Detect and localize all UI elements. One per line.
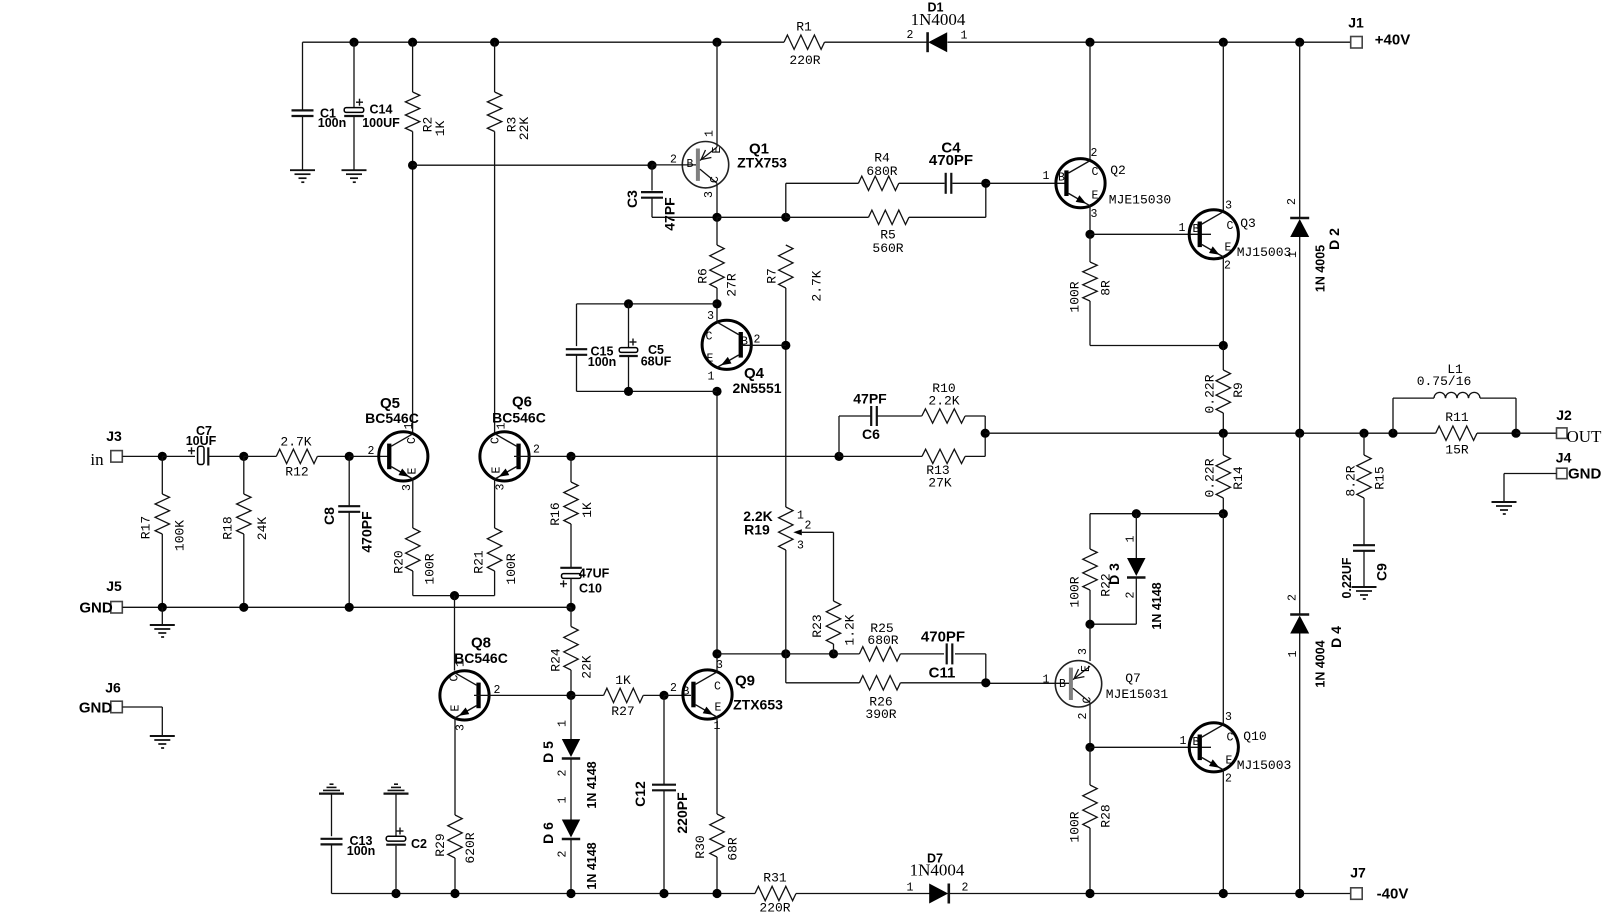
svg-text:47PF: 47PF xyxy=(662,197,678,231)
svg-text:R1: R1 xyxy=(796,20,812,35)
svg-text:J5: J5 xyxy=(106,578,122,594)
capacitor C5 68UF xyxy=(624,299,633,308)
svg-text:1: 1 xyxy=(961,30,968,43)
svg-text:27K: 27K xyxy=(928,476,952,491)
svg-text:J1: J1 xyxy=(1348,15,1364,31)
svg-text:680R: 680R xyxy=(866,164,897,179)
svg-text:R9: R9 xyxy=(1231,382,1246,398)
svg-text:560R: 560R xyxy=(872,241,903,256)
svg-text:Q9: Q9 xyxy=(735,673,755,690)
svg-text:1: 1 xyxy=(1043,674,1050,687)
node Q4 collector / C15 box xyxy=(712,299,721,308)
node L1/R11 right xyxy=(1511,429,1520,438)
connector J2 OUT xyxy=(1557,428,1568,439)
svg-text:Q6: Q6 xyxy=(512,394,532,411)
svg-text:ZTX653: ZTX653 xyxy=(733,697,783,713)
svg-text:R23: R23 xyxy=(810,614,825,637)
svg-text:B: B xyxy=(687,158,694,171)
svg-text:D 4: D 4 xyxy=(1328,626,1344,648)
svg-text:C10: C10 xyxy=(579,582,602,596)
svg-text:1N 4148: 1N 4148 xyxy=(585,761,599,808)
svg-text:E: E xyxy=(450,704,463,711)
svg-text:3: 3 xyxy=(401,484,414,491)
node C10 / gnd rail / R24 xyxy=(566,603,575,612)
wire R7 to R19 xyxy=(785,345,787,507)
svg-text:R11: R11 xyxy=(1445,410,1469,425)
svg-text:R20: R20 xyxy=(392,550,407,573)
svg-text:C: C xyxy=(1227,220,1234,233)
svg-text:C: C xyxy=(709,176,722,183)
svg-text:Q8: Q8 xyxy=(471,635,491,652)
svg-text:2: 2 xyxy=(1224,260,1231,273)
diode D3 1N4148 xyxy=(1135,514,1137,558)
node output line start xyxy=(981,429,990,438)
svg-text:0.22UF: 0.22UF xyxy=(1340,557,1354,598)
resistor R11 15R xyxy=(1436,426,1477,440)
svg-text:1.2K: 1.2K xyxy=(843,614,858,645)
svg-text:3: 3 xyxy=(703,191,716,198)
wire Q8 base xyxy=(474,694,571,696)
svg-text:BC546C: BC546C xyxy=(454,650,508,666)
svg-text:MJE15031: MJE15031 xyxy=(1106,687,1169,702)
svg-text:100K: 100K xyxy=(173,520,188,551)
resistor R1 220R xyxy=(784,35,825,49)
svg-text:C: C xyxy=(1082,696,1095,703)
svg-text:47PF: 47PF xyxy=(853,391,887,407)
wire +40V rail xyxy=(303,41,785,43)
connector J3 in xyxy=(111,451,123,463)
node J3 / R17 xyxy=(158,452,167,461)
wire Q9 emitter / R30 xyxy=(716,717,718,814)
svg-text:22K: 22K xyxy=(580,655,595,679)
resistor R29 620R xyxy=(454,718,456,815)
svg-text:1N4004: 1N4004 xyxy=(910,861,965,880)
node Q9 collector row xyxy=(712,649,721,658)
wire -40V rail xyxy=(332,893,756,895)
node Q1 collector xyxy=(712,213,721,222)
connector J6 GND xyxy=(111,701,123,713)
wire Q10 collector xyxy=(1222,514,1224,725)
resistor R4 680R xyxy=(858,176,898,190)
svg-text:390R: 390R xyxy=(865,707,896,722)
svg-text:470PF: 470PF xyxy=(921,629,965,646)
svg-text:220R: 220R xyxy=(789,53,820,68)
resistor R24 22K xyxy=(570,607,572,626)
svg-text:1: 1 xyxy=(1125,535,1138,542)
svg-text:1N 4148: 1N 4148 xyxy=(585,842,599,889)
svg-text:27R: 27R xyxy=(725,273,740,297)
svg-text:C3: C3 xyxy=(624,190,640,208)
svg-text:C: C xyxy=(490,437,503,444)
resistor R17 100K xyxy=(161,456,163,494)
svg-text:1: 1 xyxy=(907,882,914,895)
svg-text:0.22R: 0.22R xyxy=(1203,458,1218,497)
ground C13 (inverted) xyxy=(319,792,344,794)
resistor R2 1K xyxy=(412,42,414,92)
wire R8 to Q3 emitter xyxy=(1090,345,1223,347)
svg-text:2: 2 xyxy=(368,445,375,458)
svg-text:Q7: Q7 xyxy=(1125,671,1141,686)
svg-text:R16: R16 xyxy=(548,502,563,525)
svg-text:24K: 24K xyxy=(255,517,270,541)
ground J5 xyxy=(161,607,163,625)
svg-text:J7: J7 xyxy=(1350,865,1366,881)
svg-text:3: 3 xyxy=(1225,200,1232,213)
svg-text:MJ15003: MJ15003 xyxy=(1237,758,1292,773)
svg-text:100n: 100n xyxy=(318,116,347,130)
wire tail node xyxy=(413,595,495,597)
svg-text:C6: C6 xyxy=(862,426,880,442)
node feedback tap xyxy=(834,452,843,461)
svg-text:Q2: Q2 xyxy=(1110,163,1126,178)
svg-text:3: 3 xyxy=(495,483,508,490)
svg-text:1N4004: 1N4004 xyxy=(911,10,966,29)
svg-text:R17: R17 xyxy=(139,516,154,539)
capacitor C13 100n xyxy=(331,794,333,837)
wire gnd rail xyxy=(122,606,571,608)
svg-text:2: 2 xyxy=(754,334,761,347)
svg-text:68UF: 68UF xyxy=(641,355,672,369)
svg-text:22K: 22K xyxy=(517,117,532,141)
svg-text:E: E xyxy=(1226,755,1233,768)
svg-text:470PF: 470PF xyxy=(929,152,973,169)
svg-text:620R: 620R xyxy=(463,832,478,863)
ground J6 xyxy=(150,735,175,737)
ground C9 xyxy=(1352,586,1377,588)
wire mid to feedback node xyxy=(571,455,839,457)
resistor R15 8.2R xyxy=(1363,433,1365,455)
svg-text:E: E xyxy=(715,702,722,715)
wire R3 to Q6 collector xyxy=(494,132,496,434)
svg-text:R29: R29 xyxy=(433,833,448,856)
svg-text:1K: 1K xyxy=(580,502,595,518)
svg-text:1N 4005: 1N 4005 xyxy=(1314,245,1328,292)
svg-text:R14: R14 xyxy=(1231,466,1246,490)
wire Q6 base to R16 xyxy=(514,455,571,457)
svg-text:1: 1 xyxy=(708,371,715,384)
svg-text:2: 2 xyxy=(1286,198,1299,205)
resistor R10 2.2K xyxy=(922,409,965,423)
svg-text:BC546C: BC546C xyxy=(365,410,419,426)
diode D6 1N4148 xyxy=(570,759,572,820)
resistor R14 0.22R xyxy=(1222,433,1224,455)
ground C2 (inverted) xyxy=(384,792,409,794)
svg-text:8R: 8R xyxy=(1099,280,1114,296)
ground J4 xyxy=(1492,501,1517,503)
resistor R28 100R xyxy=(1089,747,1091,785)
resistor R27 1K xyxy=(571,694,604,696)
capacitor C9 0.22UF xyxy=(1353,544,1375,546)
svg-text:100R: 100R xyxy=(423,553,438,584)
svg-text:R28: R28 xyxy=(1099,804,1114,827)
svg-text:R31: R31 xyxy=(763,871,787,886)
svg-text:10UF: 10UF xyxy=(186,434,217,448)
transistor Q7 MJE15031 (PNP) xyxy=(1089,624,1091,661)
svg-text:100UF: 100UF xyxy=(362,116,400,130)
node Q8 base / R27 / D5 xyxy=(566,691,575,700)
node Q1 base / R2 xyxy=(408,161,417,170)
svg-text:D 2: D 2 xyxy=(1326,228,1342,250)
svg-text:GND: GND xyxy=(79,700,113,717)
svg-text:C: C xyxy=(406,437,419,444)
svg-text:1: 1 xyxy=(1287,650,1300,657)
resistor R23 1.2K xyxy=(826,601,840,644)
node R12 / C8 / Q5 base xyxy=(345,452,354,461)
svg-text:2.7K: 2.7K xyxy=(280,435,311,450)
svg-text:3: 3 xyxy=(1077,648,1090,655)
svg-text:1K: 1K xyxy=(433,121,448,137)
svg-text:3: 3 xyxy=(1225,711,1232,724)
diode D7 1N4004 xyxy=(929,884,948,904)
resistor R18 24K xyxy=(243,456,245,494)
connector J1 +40V xyxy=(1351,37,1363,49)
capacitor C15 100n xyxy=(576,304,578,346)
transistor Q5 BC546C (NPN) xyxy=(379,432,428,481)
connector J4 GND xyxy=(1557,468,1568,479)
svg-text:100R: 100R xyxy=(504,553,519,584)
svg-text:47UF: 47UF xyxy=(579,567,610,581)
svg-text:2.7K: 2.7K xyxy=(810,270,825,301)
resistor R5 560R xyxy=(786,216,869,218)
wire Q4 collector xyxy=(716,304,718,323)
svg-text:15R: 15R xyxy=(1445,443,1469,458)
node tail xyxy=(450,591,459,600)
svg-text:C: C xyxy=(449,674,462,681)
capacitor C2 xyxy=(395,794,397,837)
svg-text:R15: R15 xyxy=(1373,466,1388,489)
svg-text:0.75/16: 0.75/16 xyxy=(1417,374,1472,389)
wire Q5 collector column xyxy=(412,165,414,434)
svg-text:1: 1 xyxy=(1287,251,1300,258)
svg-text:2: 2 xyxy=(670,154,677,167)
svg-text:C11: C11 xyxy=(929,665,956,682)
resistor R31 220R xyxy=(755,886,796,900)
capacitor C10 47UF xyxy=(560,567,582,569)
svg-text:1: 1 xyxy=(557,720,570,727)
svg-text:C: C xyxy=(1092,166,1099,179)
capacitor C11 470PF xyxy=(946,643,948,664)
svg-text:D 3: D 3 xyxy=(1106,563,1122,585)
svg-text:2: 2 xyxy=(1225,773,1232,786)
svg-text:B: B xyxy=(741,336,748,349)
svg-text:E: E xyxy=(1080,665,1093,672)
svg-text:C14: C14 xyxy=(370,103,393,117)
transistor Q3 MJ15003 (NPN) xyxy=(1222,42,1224,212)
resistor R20 100R xyxy=(412,479,414,528)
svg-text:2: 2 xyxy=(907,29,914,42)
wire R14 row xyxy=(1090,513,1223,515)
svg-text:J3: J3 xyxy=(106,428,122,444)
node R27 / C12 / Q9 base xyxy=(659,691,668,700)
wire Q10 emitter xyxy=(1222,770,1224,894)
diode D4 1N4004 xyxy=(1299,433,1301,614)
resistor R7 2.7K xyxy=(779,245,793,288)
node R14 bottom xyxy=(1219,509,1228,518)
svg-text:680R: 680R xyxy=(867,633,898,648)
svg-text:1N 4148: 1N 4148 xyxy=(1150,582,1164,629)
node Q3 emitter / R9 xyxy=(1219,341,1228,350)
svg-text:R27: R27 xyxy=(611,704,634,719)
svg-text:J6: J6 xyxy=(105,680,121,696)
transistor Q10 MJ15003 (NPN) xyxy=(1189,723,1238,772)
svg-text:C2: C2 xyxy=(411,837,427,851)
svg-text:2N5551: 2N5551 xyxy=(732,380,781,396)
svg-text:1: 1 xyxy=(797,510,804,523)
capacitor C7 10UF xyxy=(162,455,195,457)
svg-text:R24: R24 xyxy=(549,648,564,672)
svg-text:2: 2 xyxy=(557,769,570,776)
svg-text:2.2K: 2.2K xyxy=(928,394,959,409)
diode D2 1N4005 xyxy=(1299,42,1301,218)
svg-text:0.22R: 0.22R xyxy=(1203,374,1218,413)
svg-text:100R: 100R xyxy=(1068,576,1083,607)
capacitor C12 220PF xyxy=(663,695,665,784)
resistor R25 680R xyxy=(859,647,900,661)
svg-text:R30: R30 xyxy=(693,835,708,858)
svg-text:C9: C9 xyxy=(1374,563,1390,581)
capacitor C8 470PF xyxy=(348,456,350,505)
svg-text:+40V: +40V xyxy=(1375,32,1410,49)
svg-text:2: 2 xyxy=(557,850,570,857)
svg-text:Q3: Q3 xyxy=(1240,216,1256,231)
svg-text:1: 1 xyxy=(1180,735,1187,748)
svg-text:R7: R7 xyxy=(765,268,780,284)
wire Q7 collector xyxy=(1089,702,1091,747)
svg-text:OUT: OUT xyxy=(1567,427,1603,446)
svg-text:1: 1 xyxy=(557,796,570,803)
svg-text:E: E xyxy=(1092,190,1099,203)
node Q7 emitter xyxy=(1085,620,1094,629)
svg-text:100n: 100n xyxy=(588,355,617,369)
svg-text:-40V: -40V xyxy=(1377,886,1409,903)
svg-text:J4: J4 xyxy=(1556,449,1572,465)
node Q4 emitter / C15 box bottom xyxy=(712,387,721,396)
svg-text:R6: R6 xyxy=(696,268,711,284)
svg-text:2: 2 xyxy=(1287,594,1300,601)
diode D5 1N4148 xyxy=(570,695,572,739)
svg-text:100n: 100n xyxy=(347,844,376,858)
svg-text:MJ15003: MJ15003 xyxy=(1237,245,1292,260)
svg-text:2: 2 xyxy=(1091,147,1098,160)
svg-text:3: 3 xyxy=(1091,208,1098,221)
capacitor C14 100UF xyxy=(353,42,355,107)
node R4/R5 to Q2 base xyxy=(981,179,990,188)
connector J5 GND xyxy=(111,602,123,614)
potentiometer R19 2.2K xyxy=(779,507,793,550)
svg-text:ZTX753: ZTX753 xyxy=(737,155,787,171)
svg-text:B: B xyxy=(1059,678,1066,691)
capacitor C6 47PF xyxy=(838,416,840,456)
svg-text:R12: R12 xyxy=(285,465,308,480)
svg-text:8.2R: 8.2R xyxy=(1344,465,1359,496)
ground C14 xyxy=(342,169,367,171)
svg-text:Q10: Q10 xyxy=(1243,729,1266,744)
resistor R9 0.22R xyxy=(1222,346,1224,371)
svg-text:B: B xyxy=(1058,172,1065,185)
svg-text:2: 2 xyxy=(1125,591,1138,598)
svg-text:in: in xyxy=(90,450,104,469)
transistor Q6 BC546C (NPN, mirrored) xyxy=(480,432,529,481)
svg-text:68R: 68R xyxy=(726,837,741,861)
svg-text:C8: C8 xyxy=(321,507,337,525)
diode D1 1N4004 xyxy=(928,32,947,52)
wire C15 box top xyxy=(577,303,718,305)
svg-text:3: 3 xyxy=(455,724,468,731)
svg-text:100R: 100R xyxy=(1068,811,1083,842)
node Q7 collector / Q10 base xyxy=(1085,743,1094,752)
svg-text:2: 2 xyxy=(962,882,969,895)
svg-text:1N 4004: 1N 4004 xyxy=(1314,640,1328,687)
svg-text:C12: C12 xyxy=(632,781,648,807)
svg-text:R18: R18 xyxy=(221,516,236,539)
svg-text:220PF: 220PF xyxy=(674,792,690,834)
svg-text:BC546C: BC546C xyxy=(492,410,546,426)
svg-text:GND: GND xyxy=(79,600,113,617)
transistor Q8 BC546C (NPN, mirrored) xyxy=(440,671,489,720)
resistor R16 1K xyxy=(570,456,572,482)
transistor Q4 2N5551 (NPN, mirrored) xyxy=(702,320,751,369)
svg-text:2: 2 xyxy=(805,520,812,533)
svg-text:GND: GND xyxy=(1568,466,1602,483)
svg-text:3: 3 xyxy=(797,540,804,553)
svg-text:220R: 220R xyxy=(759,901,790,916)
wire output line xyxy=(985,432,1435,434)
capacitor C3 47PF xyxy=(651,165,653,190)
svg-text:MJE15030: MJE15030 xyxy=(1109,193,1171,208)
svg-text:2: 2 xyxy=(533,444,540,457)
resistor R13 27K xyxy=(839,455,922,457)
resistor R12 2.7K xyxy=(244,455,276,457)
transistor Q2 MJE15030 (NPN) xyxy=(1089,42,1091,160)
svg-text:E: E xyxy=(711,146,724,153)
capacitor C1 100n xyxy=(302,42,304,110)
transistor Q1 ZTX753 (PNP) xyxy=(716,42,718,147)
node Q4 base xyxy=(781,341,790,350)
svg-text:D 6: D 6 xyxy=(540,822,556,844)
connector J7 -40V xyxy=(1351,888,1363,900)
resistor R30 68R xyxy=(710,814,724,857)
svg-text:B: B xyxy=(683,686,690,699)
svg-text:1K: 1K xyxy=(615,673,631,688)
ground C1 xyxy=(290,169,315,171)
resistor R3 22K xyxy=(494,42,496,92)
svg-text:E: E xyxy=(491,466,504,473)
node C7 / R18 xyxy=(239,452,248,461)
svg-text:1: 1 xyxy=(1043,170,1050,183)
resistor R8 100R xyxy=(1089,234,1091,262)
wire Q9 collector xyxy=(716,654,718,672)
wire C15 box bottom xyxy=(577,390,718,392)
node Q6 base / R16 xyxy=(566,452,575,461)
svg-text:3: 3 xyxy=(707,310,714,323)
svg-text:2: 2 xyxy=(670,682,677,695)
svg-text:C: C xyxy=(714,681,721,694)
svg-text:D 5: D 5 xyxy=(540,741,556,763)
svg-text:C: C xyxy=(1227,732,1234,745)
svg-text:J2: J2 xyxy=(1556,407,1572,423)
svg-text:2: 2 xyxy=(1077,712,1090,719)
resistor R22 100R xyxy=(1089,514,1091,549)
svg-text:E: E xyxy=(1225,242,1232,255)
wire Q4 emitter to Q9 collector xyxy=(716,391,718,654)
capacitor C4 470PF xyxy=(899,182,945,184)
svg-text:R21: R21 xyxy=(472,550,487,574)
svg-text:R19: R19 xyxy=(744,522,770,538)
svg-text:E: E xyxy=(407,467,420,474)
inductor L1 0.75/16 xyxy=(1392,398,1394,433)
svg-text:470PF: 470PF xyxy=(359,511,375,553)
resistor R6 27R xyxy=(716,217,718,245)
